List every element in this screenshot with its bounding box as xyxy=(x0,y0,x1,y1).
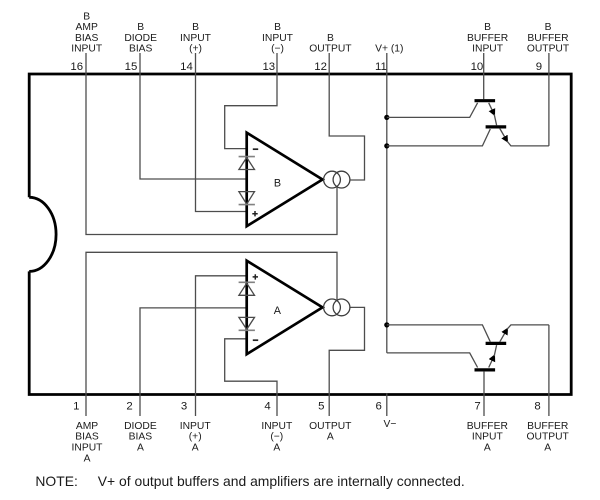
svg-text:B: B xyxy=(274,22,281,33)
pin 4 label xyxy=(261,421,293,454)
pin 8 wire (A buffer output) xyxy=(548,325,550,416)
svg-text:INPUT: INPUT xyxy=(472,44,504,55)
svg-text:NOTE:: NOTE: xyxy=(35,473,77,489)
transistor Q3 base bar xyxy=(486,342,507,345)
svg-text:3: 3 xyxy=(181,400,187,412)
svg-text:A: A xyxy=(274,305,282,317)
diode D4 (A lower) triangle xyxy=(239,317,255,329)
svg-text:2: 2 xyxy=(126,400,132,412)
svg-text:(−): (−) xyxy=(270,432,283,443)
op-amp A minus input mark xyxy=(253,339,258,341)
svg-text:A: A xyxy=(84,453,91,464)
pin 9 wire (B buffer output) xyxy=(548,53,550,146)
svg-text:BIAS: BIAS xyxy=(129,432,153,443)
svg-text:10: 10 xyxy=(471,61,484,73)
wire Q2 emitter to pin 9 xyxy=(507,141,549,146)
op-amp B minus input mark xyxy=(253,148,258,150)
wire Q1 emitter to Q2 base xyxy=(494,114,496,125)
op-amp B plus input mark xyxy=(252,211,257,216)
svg-text:INPUT: INPUT xyxy=(472,432,504,443)
transistor Q3 collector wire xyxy=(387,325,491,342)
svg-text:4: 4 xyxy=(264,400,270,412)
pin 11 label V+ (1) xyxy=(375,44,403,55)
transistor Q2 emitter with arrow xyxy=(500,129,508,143)
junction dot node V+/Q2 collector xyxy=(384,143,389,148)
svg-text:A: A xyxy=(273,443,280,454)
diode D3 (A upper) triangle xyxy=(239,283,255,295)
svg-text:AMP: AMP xyxy=(76,421,98,432)
svg-text:V+ of output buffers and ampli: V+ of output buffers and amplifiers are … xyxy=(98,473,465,489)
pin 16 wire (B amp bias input, to bottom of B current source) xyxy=(86,53,337,235)
pin 2 wire (A diode bias) xyxy=(140,308,246,416)
svg-text:V−: V− xyxy=(384,419,397,430)
junction dot node V+/Q3 collector xyxy=(384,322,389,327)
pin 3 wire (A input +) xyxy=(196,276,246,416)
svg-text:OUTPUT: OUTPUT xyxy=(527,432,570,443)
pin 5 label xyxy=(309,421,352,443)
pin 6 stub (V-) xyxy=(386,394,388,417)
transistor Q3 emitter with arrow xyxy=(500,328,508,342)
svg-text:BIAS: BIAS xyxy=(75,432,99,443)
current source B (double circle) xyxy=(324,171,350,188)
pin 14 label xyxy=(180,22,212,54)
transistor Q1 collector wire xyxy=(387,103,478,118)
pin 1 label xyxy=(72,421,104,464)
pin 15 label xyxy=(124,22,157,54)
svg-text:B: B xyxy=(327,33,334,44)
diode D2 (B lower) cathode bar xyxy=(239,204,255,206)
transistor Q4 emitter with arrow xyxy=(489,355,495,368)
svg-text:14: 14 xyxy=(180,61,193,73)
pin 11 V+ rail xyxy=(386,53,388,353)
pin 16 label xyxy=(71,11,103,54)
pin 12 wire (B output, from current source) xyxy=(329,53,364,180)
op-amp A triangle xyxy=(247,261,323,355)
svg-text:B: B xyxy=(274,178,281,190)
svg-text:B: B xyxy=(545,22,552,33)
wire Q4 emitter to Q3 base xyxy=(494,345,496,356)
svg-text:B: B xyxy=(83,11,90,22)
svg-text:B: B xyxy=(192,22,199,33)
pin 13 wire (B input -) xyxy=(225,53,277,149)
svg-text:A: A xyxy=(192,443,199,454)
svg-text:15: 15 xyxy=(125,61,138,73)
svg-text:BUFFER: BUFFER xyxy=(467,33,508,44)
svg-text:INPUT: INPUT xyxy=(180,33,212,44)
svg-text:INPUT: INPUT xyxy=(262,33,294,44)
note text xyxy=(35,473,464,489)
pin 1 wire (A amp bias input, to top of A current source) xyxy=(86,252,337,416)
pin 3 label xyxy=(180,421,212,454)
pin 6 label V- xyxy=(384,419,397,430)
svg-text:7: 7 xyxy=(474,400,480,412)
svg-text:(+): (+) xyxy=(189,432,202,443)
svg-text:(+): (+) xyxy=(189,44,202,55)
pin 2 label xyxy=(124,421,157,454)
diode D3 (A upper) cathode bar xyxy=(239,281,255,283)
svg-text:INPUT: INPUT xyxy=(180,421,212,432)
transistor Q2 collector wire xyxy=(387,129,491,146)
svg-text:1: 1 xyxy=(73,400,79,412)
notch arc on left edge xyxy=(29,197,56,271)
pin 7 label xyxy=(467,421,508,454)
svg-text:INPUT: INPUT xyxy=(72,443,104,454)
svg-text:INPUT: INPUT xyxy=(261,421,293,432)
pin 10 wire (B buffer input, base of Q1) xyxy=(483,53,485,99)
svg-text:16: 16 xyxy=(70,61,83,73)
svg-text:OUTPUT: OUTPUT xyxy=(309,44,352,55)
svg-text:11: 11 xyxy=(375,61,387,73)
svg-text:BUFFER: BUFFER xyxy=(527,33,568,44)
svg-text:BIAS: BIAS xyxy=(75,33,99,44)
junction dot node V+/Q1 collector xyxy=(384,115,389,120)
svg-text:(−): (−) xyxy=(271,44,284,55)
pin 10 label xyxy=(467,22,508,54)
diode D1 (B upper) triangle xyxy=(239,158,255,170)
svg-text:BUFFER: BUFFER xyxy=(467,421,508,432)
svg-text:8: 8 xyxy=(534,400,540,412)
pin 15 wire (B diode bias) xyxy=(140,53,246,179)
transistor Q1 base bar xyxy=(475,99,496,102)
wire Q3 emitter to pin 8 xyxy=(507,325,549,329)
svg-text:B: B xyxy=(137,22,144,33)
svg-text:6: 6 xyxy=(376,400,382,412)
svg-text:A: A xyxy=(137,443,144,454)
pin 13 label xyxy=(262,22,294,54)
pin 9 label xyxy=(527,22,570,54)
svg-text:A: A xyxy=(327,432,334,443)
svg-text:OUTPUT: OUTPUT xyxy=(527,44,570,55)
current source A (double circle) xyxy=(324,299,350,316)
diode D4 (A lower) cathode bar xyxy=(239,329,255,331)
op-amp A plus input mark xyxy=(253,274,258,279)
transistor Q4 collector wire (V+ rail end) xyxy=(387,353,478,368)
svg-text:V+ (1): V+ (1) xyxy=(375,44,403,55)
svg-text:DIODE: DIODE xyxy=(124,421,157,432)
svg-text:12: 12 xyxy=(314,61,327,73)
svg-text:A: A xyxy=(544,443,551,454)
pin 4 wire (A input -) xyxy=(225,339,277,416)
svg-text:A: A xyxy=(484,443,491,454)
svg-text:AMP: AMP xyxy=(76,22,98,33)
svg-text:9: 9 xyxy=(536,61,542,73)
svg-text:OUTPUT: OUTPUT xyxy=(309,421,352,432)
transistor Q2 base bar xyxy=(486,125,507,128)
svg-text:BUFFER: BUFFER xyxy=(527,421,568,432)
svg-text:5: 5 xyxy=(318,400,324,412)
svg-text:13: 13 xyxy=(262,61,275,73)
diode D2 (B lower) triangle xyxy=(239,192,255,205)
svg-text:B: B xyxy=(484,22,491,33)
svg-text:DIODE: DIODE xyxy=(124,33,157,44)
diode D1 (B upper) cathode bar xyxy=(239,156,255,158)
IC package body outline with index notch xyxy=(29,74,571,395)
pin 5 wire (A output, from current source) xyxy=(329,307,364,416)
pin 12 label xyxy=(309,33,352,55)
pin 7 wire (A buffer input, base of Q4) xyxy=(483,372,485,416)
pin 8 label xyxy=(527,421,570,454)
transistor Q1 emitter with arrow xyxy=(489,103,495,116)
transistor Q4 base bar xyxy=(475,368,496,371)
svg-text:INPUT: INPUT xyxy=(71,44,103,55)
svg-text:BIAS: BIAS xyxy=(129,44,153,55)
pin 14 wire (B input +) xyxy=(196,53,246,212)
op-amp B triangle xyxy=(247,133,323,227)
